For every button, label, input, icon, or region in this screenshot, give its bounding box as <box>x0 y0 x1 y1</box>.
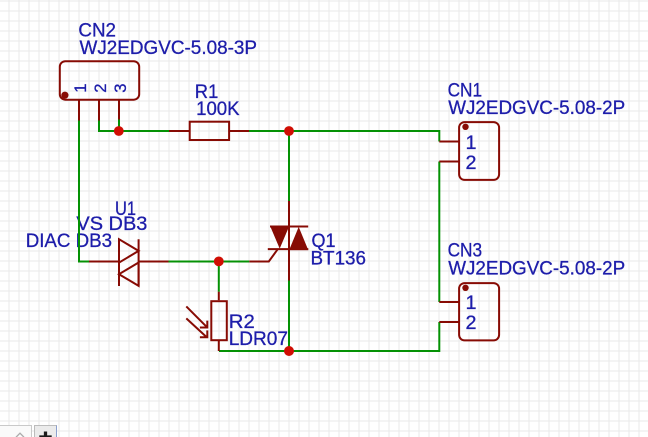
svg-text:1: 1 <box>466 292 477 314</box>
svg-text:3: 3 <box>111 83 130 92</box>
svg-text:WJ2EDGVC-5.08-3P: WJ2EDGVC-5.08-3P <box>80 37 258 59</box>
svg-text:LDR07: LDR07 <box>229 328 288 350</box>
svg-text:WJ2EDGVC-5.08-2P: WJ2EDGVC-5.08-2P <box>448 97 625 119</box>
svg-text:2: 2 <box>466 152 477 174</box>
svg-text:BT136: BT136 <box>311 247 367 269</box>
svg-text:100K: 100K <box>196 98 240 120</box>
svg-text:WJ2EDGVC-5.08-2P: WJ2EDGVC-5.08-2P <box>448 258 625 280</box>
svg-text:2: 2 <box>466 312 477 334</box>
svg-text:1: 1 <box>466 132 477 154</box>
svg-text:1: 1 <box>71 83 90 92</box>
svg-text:DIAC DB3: DIAC DB3 <box>26 230 112 252</box>
svg-text:2: 2 <box>91 83 110 92</box>
